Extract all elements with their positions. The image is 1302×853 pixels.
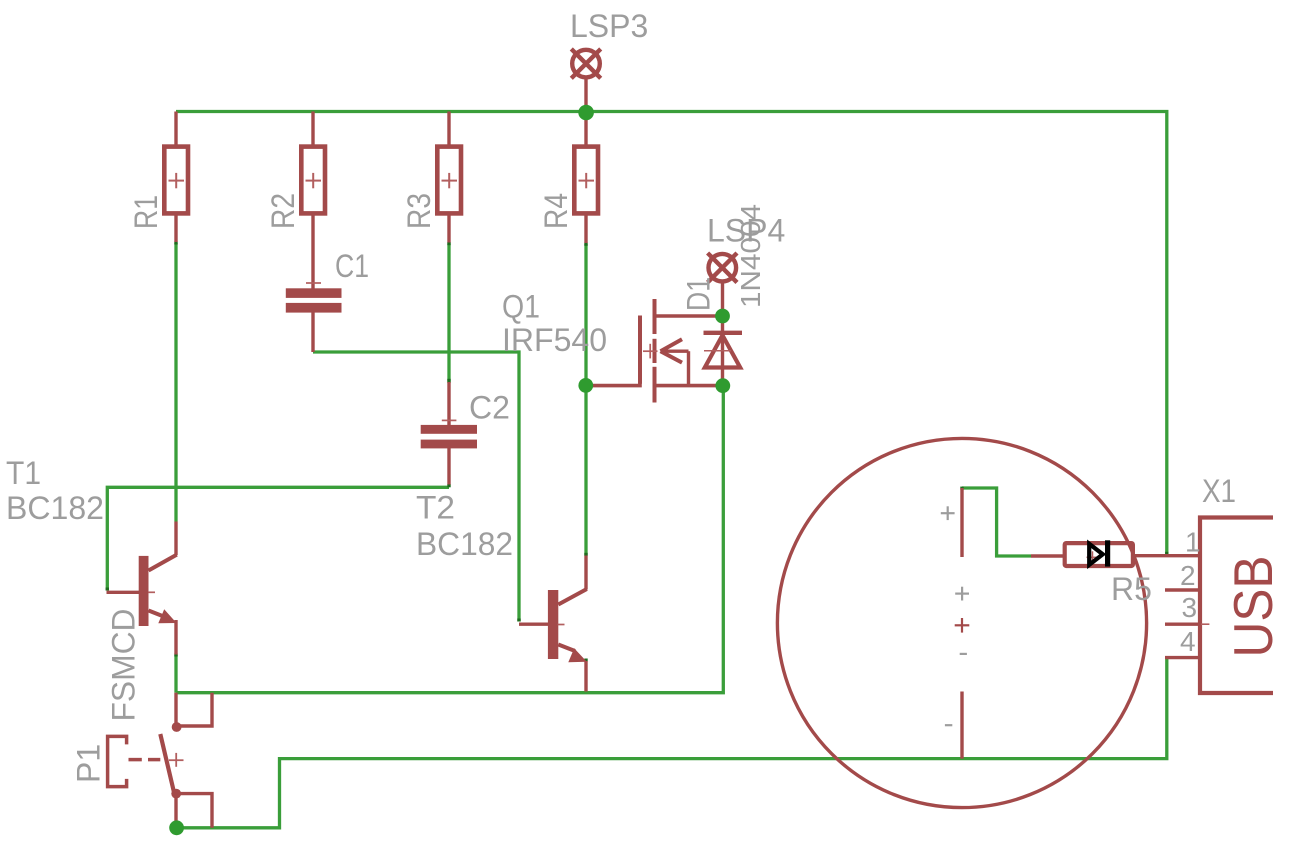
svg-text:C1: C1 xyxy=(335,248,369,284)
wire tick T1 emitter xyxy=(174,654,177,657)
pin R4 bottom xyxy=(584,215,587,244)
wire top bus VCC xyxy=(176,112,1167,556)
wire tick C2 top xyxy=(447,379,450,383)
wire R5 left xyxy=(1031,554,1064,557)
wire tick T2 base xyxy=(517,619,520,622)
node drain junction xyxy=(715,309,730,324)
diode D1 xyxy=(704,333,743,368)
svg-text:USB: USB xyxy=(1222,556,1284,658)
motor plus pin label xyxy=(941,506,969,725)
svg-text:Q1: Q1 xyxy=(502,289,540,325)
node LSP3 junction xyxy=(578,105,594,121)
pin D1 vertical through diode xyxy=(721,283,724,386)
LED arrow (black) inside R5 xyxy=(1087,540,1108,566)
svg-text:P1: P1 xyxy=(71,744,107,783)
svg-text:R4: R4 xyxy=(538,193,574,229)
pin C1 bottom xyxy=(311,312,314,352)
svg-text:IRF540: IRF540 xyxy=(502,322,607,358)
pin X1 pin3 xyxy=(1165,623,1200,626)
svg-text:R3: R3 xyxy=(401,193,437,229)
transistor Q1 (MOSFET) xyxy=(640,299,689,403)
wire bottom emitter bus up to Q1 source node xyxy=(176,386,723,693)
wire tick R1 xyxy=(174,242,177,245)
wire tick T1 base xyxy=(106,588,109,591)
pin X1 pin4 xyxy=(1165,656,1200,659)
pin motor plus xyxy=(960,488,963,557)
wire tick R4 xyxy=(584,243,587,246)
wire R1 to T1 collector xyxy=(174,243,177,522)
wire C1 bottom to T2 base xyxy=(313,352,519,622)
wire tick T2 collector xyxy=(584,553,587,556)
capacitor C2 xyxy=(421,425,477,449)
pin P1 bottom xyxy=(174,794,177,828)
switch P1 xyxy=(108,722,184,798)
motor origin cross xyxy=(955,618,970,633)
pin T2 collector xyxy=(584,556,587,590)
wire tick C2 bottom xyxy=(447,484,450,487)
pin C2 top xyxy=(447,382,450,426)
svg-text:1: 1 xyxy=(1185,527,1201,558)
LSP3 terminal symbol xyxy=(571,49,600,78)
pin R3 top xyxy=(447,112,450,147)
node source junction xyxy=(715,378,730,393)
svg-text:4: 4 xyxy=(1180,626,1196,657)
resistor R4 xyxy=(574,147,598,214)
motor M1 circle xyxy=(777,438,1146,807)
pin T2 base xyxy=(519,623,549,626)
transistor T2 xyxy=(548,589,587,662)
svg-text:R5: R5 xyxy=(1111,571,1152,607)
resistor R5 xyxy=(1065,543,1133,566)
wire tick T2 emitter xyxy=(584,659,587,662)
svg-text:2: 2 xyxy=(1180,560,1196,591)
pin Q1 gate L xyxy=(587,316,640,386)
svg-text:T1: T1 xyxy=(6,455,41,491)
pin R2 top xyxy=(311,112,314,147)
pin C2 bottom xyxy=(447,448,450,485)
pin R1 top xyxy=(174,112,177,147)
svg-text:1N4004: 1N4004 xyxy=(735,204,766,308)
capacitor C1 xyxy=(286,288,342,312)
pin R2 bottom to C1 xyxy=(311,215,314,289)
resistor R2 xyxy=(301,147,325,214)
node P1 bottom junction xyxy=(169,820,184,835)
svg-text:BC182: BC182 xyxy=(6,490,104,526)
wire T1 emitter to bus xyxy=(174,655,177,693)
wire tick right bus at pin1 xyxy=(1165,552,1168,555)
resistor R1 xyxy=(164,147,188,214)
wire tick R3 xyxy=(447,242,450,245)
pin P1 bottom L xyxy=(176,794,212,828)
wire C2 bottom to T1 base xyxy=(107,487,449,590)
pin motor minus xyxy=(960,692,963,759)
pin P1 top L xyxy=(176,693,212,726)
pin R4 top xyxy=(584,112,587,147)
svg-text:FSMCD: FSMCD xyxy=(106,609,142,722)
connector X1 (USB) xyxy=(1200,518,1273,694)
LSP4 terminal symbol xyxy=(708,253,737,282)
pin LSP3 xyxy=(584,79,587,113)
pin X1 pin2 xyxy=(1165,588,1200,591)
svg-text:3: 3 xyxy=(1182,592,1198,623)
resistor R3 xyxy=(437,147,461,214)
node gate junction xyxy=(578,378,593,393)
svg-text:R2: R2 xyxy=(265,193,301,229)
wire tick motor plus xyxy=(960,487,963,490)
pin T1 collector xyxy=(174,522,177,556)
wire motor plus to R5 xyxy=(962,488,1031,556)
pin T1 emitter xyxy=(174,620,177,655)
wire R3 to C2 top xyxy=(447,244,450,382)
svg-text:X1: X1 xyxy=(1202,473,1236,509)
pin Q1 drain xyxy=(655,314,723,318)
pin R3 bottom xyxy=(447,215,450,243)
svg-text:BC182: BC182 xyxy=(416,526,513,562)
svg-text:D1: D1 xyxy=(681,277,717,311)
wire R4 net down to T2 collector xyxy=(584,244,587,555)
pin R1 bottom xyxy=(174,215,177,243)
pin T2 emitter xyxy=(584,661,587,692)
pin P1 top xyxy=(174,693,177,727)
wire P1 bottom net to USB pin4 xyxy=(177,658,1167,828)
transistor T1 xyxy=(139,555,177,626)
svg-text:T2: T2 xyxy=(416,490,455,526)
wire R5 right to X1 pin1 xyxy=(1135,554,1200,557)
svg-text:C2: C2 xyxy=(469,390,510,426)
pin T1 base xyxy=(107,591,140,594)
svg-text:R1: R1 xyxy=(128,195,164,229)
svg-text:LSP3: LSP3 xyxy=(570,8,648,44)
pin Q1 source xyxy=(655,384,723,388)
